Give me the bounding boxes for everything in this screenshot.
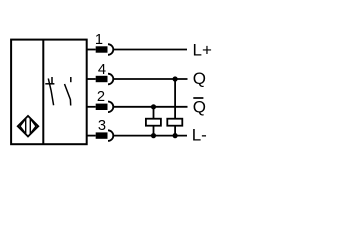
svg-text:4: 4 bbox=[98, 62, 106, 78]
svg-text:Q: Q bbox=[193, 98, 206, 117]
sensor body divider bbox=[42, 40, 44, 145]
svg-text:L-: L- bbox=[192, 126, 207, 145]
svg-text:2: 2 bbox=[97, 89, 105, 105]
svg-text:Q: Q bbox=[193, 69, 206, 88]
inductive proximity sensor symbol bbox=[18, 116, 39, 137]
pin 1 connector bbox=[87, 44, 114, 55]
wire: vertical branch from Qbar to L- bbox=[153, 107, 155, 136]
junction on L- wire (left) bbox=[151, 133, 156, 138]
load resistor on Q branch bbox=[167, 119, 182, 126]
NC contact (break switch) bbox=[45, 77, 54, 105]
wire Qbar bbox=[113, 106, 187, 108]
sensor body outline bbox=[11, 40, 87, 145]
pin 2 connector bbox=[87, 102, 114, 113]
svg-text:3: 3 bbox=[98, 118, 106, 134]
wire: vertical branch from Q to L- bbox=[174, 79, 176, 136]
svg-text:L+: L+ bbox=[193, 41, 212, 60]
load resistor on Qbar branch bbox=[146, 119, 161, 126]
junction on Q wire bbox=[173, 76, 178, 81]
junction on Qbar wire bbox=[151, 104, 156, 109]
wire L- bbox=[113, 135, 187, 137]
junction on L- wire (right) bbox=[173, 133, 178, 138]
NO contact (make switch) bbox=[65, 77, 71, 106]
net label Qbar bbox=[193, 98, 206, 117]
wire Q bbox=[113, 78, 187, 80]
pin 4 connector bbox=[87, 74, 114, 85]
wire L+ bbox=[113, 49, 187, 51]
pin 3 connector bbox=[87, 130, 114, 141]
svg-text:1: 1 bbox=[95, 32, 103, 48]
